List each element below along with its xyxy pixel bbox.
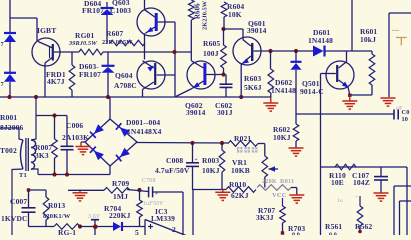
capacitor C008: [192, 143, 194, 163]
wire bridge bottom: [109, 166, 111, 175]
wire bridge right y143: [137, 142, 228, 145]
svg-text:2A103K: 2A103K: [62, 133, 89, 142]
wire x321 long vertical: [320, 114, 322, 235]
svg-text:C008: C008: [166, 156, 183, 165]
diode D1 left upper: [9, 18, 11, 33]
wire Q501 base: [321, 73, 336, 75]
svg-text:RG01: RG01: [75, 31, 94, 40]
wire gnd to R709: [68, 189, 104, 191]
svg-text:301J: 301J: [217, 108, 233, 117]
wire primary bottom lead: [12, 169, 23, 235]
wire secondary bottom lead: [31, 169, 38, 175]
svg-text:A708C: A708C: [114, 81, 137, 90]
wire secondary top lead: [31, 97, 36, 140]
svg-text:4K7J: 4K7J: [47, 77, 65, 86]
ground R011: [289, 194, 304, 196]
wire rail y114: [296, 113, 394, 115]
node dot test point: [93, 224, 98, 229]
svg-text:0 0: 0 0: [292, 233, 300, 236]
svg-text:10KJ: 10KJ: [202, 166, 220, 175]
wire gate horizontal: [10, 17, 37, 19]
diode D602: [295, 51, 297, 62]
resistor RG01: [79, 49, 103, 55]
node dot rail 36: [34, 95, 38, 99]
wire x193 down: [192, 189, 194, 192]
node sq emitter: [348, 94, 351, 97]
wire bridge left to ground: [81, 141, 85, 143]
svg-text:220KJ: 220KJ: [109, 211, 131, 220]
wire after D601: [325, 50, 373, 52]
node sq R707 bottom: [281, 231, 284, 234]
transistor Q501: [326, 61, 354, 89]
svg-text:R021: R021: [234, 134, 251, 143]
resistor R607: [110, 40, 145, 46]
resistor FRD1: [71, 52, 73, 65]
transformer T1 secondary: [31, 140, 36, 169]
svg-text:4.7uF/50V: 4.7uF/50V: [155, 166, 190, 175]
transistor Q604: [137, 61, 165, 89]
capacitor C708: [148, 187, 150, 198]
svg-text:1N4148: 1N4148: [271, 86, 296, 95]
resistor R601: [371, 51, 373, 54]
transistor IGBT: [32, 38, 60, 66]
diode D2 left lower: [4, 72, 16, 74]
wire junction to C708: [127, 190, 148, 192]
ground bridge left: [76, 146, 91, 148]
ground Q501: [349, 95, 351, 101]
wire Q603 base right: [158, 21, 175, 23]
ground mid: [222, 190, 224, 193]
svg-text:7: 7: [1, 41, 5, 48]
transformer T1 core: [25, 138, 27, 171]
wire right L3: [400, 200, 411, 202]
svg-text:100J: 100J: [203, 49, 219, 58]
resistor R709: [104, 188, 130, 194]
transistor Q602: [187, 61, 215, 89]
ground C107: [374, 192, 389, 194]
svg-text:+: +: [355, 195, 358, 200]
node dot R604-R605: [221, 27, 225, 31]
svg-text:5: 5: [135, 228, 139, 235]
node dot rail 108: [106, 95, 110, 99]
node dot 296: [294, 49, 298, 53]
capacitor C602: [225, 75, 227, 85]
svg-text:VCC: VCC: [272, 192, 287, 199]
svg-text:104Z: 104Z: [353, 178, 370, 187]
svg-text:10E: 10E: [331, 178, 344, 187]
svg-text:62KJ: 62KJ: [231, 191, 249, 200]
wire main y52 segment: [103, 51, 191, 53]
wire Q604 base: [157, 74, 175, 76]
svg-text:2K2J0.5W: 2K2J0.5W: [202, 0, 209, 30]
ground R602: [295, 141, 297, 148]
svg-text:39RJ0.5W: 39RJ0.5W: [68, 40, 97, 47]
wire collector link y29: [224, 28, 244, 30]
wire y167: [321, 166, 408, 168]
svg-text:7: 7: [1, 81, 5, 88]
wire y226 mid: [80, 226, 113, 228]
svg-text:3.6V: 3.6V: [87, 214, 101, 220]
wire top-left vertical: [9, 0, 11, 18]
svg-text:C006: C006: [66, 121, 83, 130]
wire Q603-Q604 link: [144, 33, 146, 59]
resistor R603: [270, 51, 272, 69]
svg-text:C708: C708: [142, 178, 156, 184]
node dot y115: [52, 113, 56, 117]
svg-text:R562: R562: [355, 222, 372, 231]
svg-text:R709: R709: [112, 179, 129, 188]
node dot 66-174: [65, 172, 69, 176]
transistor Q601: [233, 37, 261, 65]
svg-text:1KVDC: 1KVDC: [1, 214, 28, 223]
node dot rail 9: [7, 95, 11, 99]
transistor Q603: [137, 8, 165, 36]
node dot emitter-rail: [239, 95, 243, 99]
svg-text:1MJ: 1MJ: [113, 192, 128, 201]
svg-text:Q604: Q604: [115, 71, 133, 80]
node dot main-base junction: [172, 50, 176, 54]
svg-text:FR107: FR107: [79, 70, 101, 79]
resistor R011 gray: [257, 185, 291, 191]
resistor R010: [226, 187, 256, 193]
diode bridge D001-004: [85, 119, 137, 166]
wire rail y97: [0, 96, 271, 98]
potentiometer VR1: [258, 143, 265, 145]
svg-text:T1: T1: [19, 172, 27, 179]
wire y190 c008: [193, 189, 227, 191]
wire IGBT collector out: [54, 51, 79, 53]
node sq C007: [27, 188, 30, 191]
wire Q501 collector: [346, 52, 348, 62]
resistor RG1: [54, 224, 80, 230]
op-amp IC3: [144, 220, 146, 236]
svg-text:1u: 1u: [337, 198, 343, 204]
svg-text:R003: R003: [202, 156, 219, 165]
wire Q601 collector: [242, 29, 244, 40]
svg-text:R010: R010: [229, 180, 246, 189]
svg-text:220K: 220K: [262, 178, 277, 185]
wire primary top lead: [0, 128, 23, 140]
node dot C008 top: [190, 141, 194, 145]
wire Q602 base: [206, 74, 224, 76]
svg-text:10KB: 10KB: [231, 166, 250, 175]
test point 3.6V: [91, 219, 99, 221]
label gray chinese: [237, 147, 257, 153]
svg-text:820K1/W: 820K1/W: [43, 213, 71, 220]
wire top vertical x352: [351, 0, 353, 51]
resistor R602: [293, 124, 299, 141]
resistor R606: [189, 0, 195, 20]
wire x183 down: [182, 192, 184, 235]
svg-text:R013: R013: [48, 201, 65, 210]
wire Q603 collector top: [144, 0, 146, 10]
wire y190 left: [29, 189, 47, 191]
node dot 270: [268, 49, 272, 53]
svg-text:22R J0.5W: 22R J0.5W: [102, 39, 133, 46]
svg-text:2: 2: [172, 225, 176, 234]
wire Q601 emitter down: [240, 64, 242, 97]
svg-text:C1003: C1003: [110, 6, 131, 15]
svg-text:LM339: LM339: [151, 214, 175, 223]
node dot R709 right: [137, 188, 141, 192]
svg-text:10K: 10K: [228, 10, 242, 19]
svg-text:1N4148X4: 1N4148X4: [127, 127, 162, 136]
diode D604: [106, 2, 108, 8]
wire bridge top: [109, 97, 111, 119]
svg-text:10kJ: 10kJ: [360, 35, 376, 44]
wire R602 column: [295, 114, 297, 124]
svg-text:RG-1: RG-1: [58, 228, 76, 235]
svg-text:C007: C007: [10, 197, 27, 206]
svg-text:FR107: FR107: [82, 6, 104, 15]
wire right L1: [406, 167, 408, 235]
svg-text:0 0: 0 0: [329, 233, 337, 236]
diode D603: [107, 52, 109, 66]
node dot 55-174: [52, 172, 56, 176]
wire base y51 right: [254, 50, 313, 52]
svg-text:R001: R001: [0, 113, 17, 122]
resistor R605: [223, 29, 225, 45]
svg-text:▔▔: ▔▔: [391, 29, 400, 35]
svg-text:39014: 39014: [186, 108, 206, 117]
capacitor C007: [28, 190, 30, 208]
svg-text:39014: 39014: [247, 26, 267, 35]
resistor R707: [282, 198, 284, 206]
svg-text:1N4148: 1N4148: [308, 36, 333, 45]
svg-text:C0: C0: [402, 109, 410, 116]
node dot RG1: [78, 224, 82, 228]
wire secondary to bridge y174: [38, 174, 110, 176]
diode op-amp input: [113, 222, 121, 231]
resistor R604: [221, 2, 227, 17]
diode D601: [313, 46, 324, 57]
capacitor C-right-edge: [393, 110, 395, 120]
capacitor C107: [380, 167, 382, 176]
ground box: [381, 97, 396, 99]
svg-text:R605: R605: [203, 39, 220, 48]
wire IGBT emitter down: [44, 63, 46, 97]
resistor R013: [45, 190, 47, 197]
wire Q501 emitter to node: [348, 87, 350, 95]
wire R011 to ground: [291, 187, 297, 189]
wire right L2: [394, 185, 411, 187]
svg-text:R011: R011: [280, 178, 294, 185]
resistor R008: [221, 143, 223, 150]
node dot R008 top: [220, 141, 224, 145]
ground rail end: [270, 97, 272, 103]
resistor R110: [335, 164, 356, 170]
resistor R007: [54, 116, 56, 140]
svg-text:5K6J: 5K6J: [244, 83, 262, 92]
svg-text:IGBT: IGBT: [37, 26, 56, 35]
resistor R021: [228, 141, 258, 147]
svg-text:R561: R561: [325, 222, 342, 231]
capacitor C006: [66, 116, 68, 147]
svg-text:10KJ: 10KJ: [273, 133, 291, 142]
svg-text:R607: R607: [106, 29, 123, 38]
node dot base junction: [221, 72, 225, 76]
svg-text:10: 10: [402, 116, 409, 123]
svg-text:3K3: 3K3: [35, 151, 49, 160]
svg-text:3K3J: 3K3J: [256, 213, 274, 222]
svg-text:T002: T002: [0, 146, 17, 155]
ground left (C006 area): [79, 190, 81, 193]
wire gate drop to IGBT: [36, 18, 38, 41]
transformer T1 primary: [21, 140, 24, 169]
wire diode to opamp: [123, 226, 146, 228]
wire y115 branch: [36, 115, 67, 117]
box outline: [389, 12, 411, 14]
resistor R704: [139, 190, 141, 200]
svg-text:R606: R606: [195, 3, 202, 19]
svg-text:R603: R603: [244, 74, 261, 83]
svg-text:D001--004: D001--004: [126, 118, 160, 127]
wire Q604 emitter down: [142, 90, 144, 98]
wire bottom y226: [29, 226, 55, 228]
